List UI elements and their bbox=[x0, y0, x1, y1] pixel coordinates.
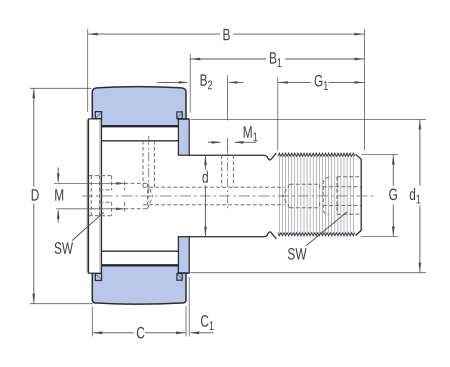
stud threaded end face with chamfers bbox=[356, 154, 362, 235]
seal groove notch bottom-right bbox=[177, 273, 189, 280]
radial hole centerline bbox=[148, 136, 150, 202]
svg-text:D: D bbox=[31, 187, 40, 205]
svg-text:G: G bbox=[389, 186, 398, 204]
cross hole M1 centerline bbox=[227, 146, 229, 209]
label SW left with leader bbox=[54, 212, 104, 258]
dimension M1 axis extension line (broken at label) bbox=[227, 75, 229, 150]
label B1 bbox=[269, 50, 282, 71]
threaded grease hole M dashed outline bbox=[125, 182, 153, 212]
thread crest lines (G thread) bbox=[279, 154, 353, 235]
stud raceway line bottom bbox=[102, 250, 179, 252]
dimension G1 extension line bbox=[277, 77, 279, 151]
stud flange lower half bbox=[178, 237, 189, 273]
dimension M1 (outside arrows) bbox=[208, 141, 257, 144]
left thrust washer (side plate) bbox=[87, 119, 101, 273]
drill cone between ducts (dashed) bbox=[283, 184, 290, 207]
dimension C extension lines bbox=[92, 277, 189, 337]
left socket inner step hole dashed lines bbox=[100, 190, 112, 202]
dimension G1 line bbox=[278, 81, 365, 84]
svg-text:SW: SW bbox=[54, 240, 73, 258]
stud flange upper half bbox=[178, 119, 189, 155]
dimension G extension lines bbox=[361, 155, 398, 237]
dimension G line bbox=[392, 155, 395, 237]
label B2 bbox=[200, 72, 213, 93]
seal groove notch top-right bbox=[177, 112, 189, 119]
outer ring top section (blue, crowned OD) bbox=[92, 87, 186, 127]
label C bbox=[136, 325, 145, 343]
svg-text:d: d bbox=[202, 169, 209, 187]
label G bbox=[389, 186, 398, 204]
dimension B1 line bbox=[190, 58, 364, 61]
seal groove notch top-left bbox=[92, 112, 101, 119]
label M1 bbox=[243, 124, 258, 145]
dimension B extension lines bbox=[88, 29, 365, 151]
dimension D extension lines bbox=[30, 88, 93, 303]
dimension B2 (outside arrows) bbox=[157, 81, 243, 84]
svg-text:M: M bbox=[54, 187, 64, 205]
radial lubrication hole under roller (dashed) bbox=[143, 141, 154, 188]
label G1 bbox=[314, 73, 328, 94]
outer ring bore line bottom bbox=[102, 264, 179, 266]
seal groove notch bottom-left bbox=[92, 273, 101, 280]
stud raceway line top bbox=[102, 140, 179, 142]
outer ring bore line top bbox=[102, 125, 179, 127]
dimension C1 (outside arrow) bbox=[189, 331, 213, 334]
label B bbox=[222, 26, 230, 44]
label SW right with leader bbox=[287, 212, 347, 264]
dimension d line bbox=[204, 155, 207, 237]
outer ring bottom section (blue, crowned OD) bbox=[92, 265, 186, 304]
cross lubrication hole M1 (dashed) bbox=[222, 155, 234, 187]
label D bbox=[31, 187, 40, 205]
dimension M arrows bbox=[57, 168, 60, 223]
thread crest zigzag bottom profile bbox=[278, 233, 355, 236]
dimension d1 line bbox=[419, 119, 422, 272]
svg-text:C: C bbox=[136, 325, 145, 343]
dimension M extension lines with pointers bbox=[54, 182, 126, 210]
dimension C line bbox=[92, 331, 186, 334]
main axis centerline bbox=[82, 195, 374, 197]
stud shank top surface with thread undercut groove bbox=[189, 153, 276, 160]
dimension d1 extension lines bbox=[191, 119, 426, 272]
stud shank bottom surface with thread undercut groove bbox=[189, 232, 276, 239]
label d bbox=[202, 169, 209, 187]
white gap left of ring bore (top) bbox=[86, 120, 101, 127]
hex socket left end outer dashed lines bbox=[89, 176, 112, 216]
middle axial hole dashed lines bbox=[290, 184, 320, 207]
svg-text:B: B bbox=[222, 26, 230, 44]
white gap left of ring bore (bottom) bbox=[86, 265, 101, 272]
axial lubrication duct dashed lines bbox=[143, 187, 285, 205]
label C1 bbox=[200, 313, 214, 334]
thread crest zigzag top profile bbox=[278, 153, 355, 156]
label d1 bbox=[409, 186, 421, 207]
dimension B1 extension line bbox=[189, 54, 191, 113]
dimension D line (broken at label) bbox=[32, 88, 35, 303]
socket pilot hole rounded bottom (dashed) bbox=[323, 177, 329, 214]
label M bbox=[54, 187, 64, 205]
hex socket right end dashed outline (SW) bbox=[323, 177, 361, 215]
dimension B line bbox=[88, 33, 365, 36]
svg-text:SW: SW bbox=[287, 246, 306, 264]
